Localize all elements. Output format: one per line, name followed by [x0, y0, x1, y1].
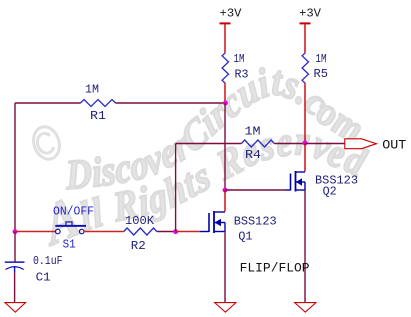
- resistor R2: [124, 228, 157, 235]
- svg-text:C1: C1: [36, 271, 51, 285]
- svg-text:+3V: +3V: [299, 7, 322, 21]
- svg-text:0.1uF: 0.1uF: [33, 254, 63, 268]
- svg-text:Q1: Q1: [238, 229, 252, 243]
- wire node B down to Q2 drain: [304, 144, 306, 172]
- svg-text:1M: 1M: [316, 52, 327, 66]
- svg-text:Q2: Q2: [323, 185, 337, 199]
- resistor R4: [241, 140, 274, 147]
- svg-text:+3V: +3V: [220, 7, 243, 21]
- svg-text:R5: R5: [314, 67, 329, 81]
- wire junction to Q1 drain: [224, 190, 226, 212]
- svg-text:S1: S1: [63, 238, 76, 252]
- svg-text:R2: R2: [131, 239, 146, 253]
- left rail vertical wire: [14, 103, 16, 232]
- wire across to R4 (crosses node-A rail, no connection): [176, 143, 242, 145]
- wire R2 to gate junction: [157, 231, 176, 233]
- wire left rail top corner from (15,103): [15, 102, 81, 104]
- ground (Q1 source): [215, 303, 236, 313]
- watermark copyright symbol: [30, 123, 64, 162]
- wire junction to Q1 gate: [176, 231, 201, 233]
- wire R4 to node B: [274, 143, 305, 145]
- wire R3 bottom to node A: [224, 83, 226, 103]
- resistor R3: [222, 53, 228, 84]
- svg-text:BSS123: BSS123: [234, 214, 277, 228]
- resistor R1: [81, 100, 116, 107]
- svg-text:OUT: OUT: [382, 138, 406, 153]
- ground (Q2 source): [295, 303, 316, 313]
- wire R5 bottom to node B: [304, 83, 306, 143]
- node B junction dot: [303, 141, 308, 146]
- junction dot (Q1 gate node): [173, 229, 178, 234]
- wire node A down to Q2-gate junction: [224, 103, 226, 190]
- wire rail to C1: [14, 232, 16, 263]
- wire Q1 source down to ground: [224, 232, 226, 303]
- wire C1 to ground: [14, 273, 16, 303]
- transistor Q2 (BSS123 N-MOSFET): [285, 171, 305, 192]
- switch S1 (pushbutton): [55, 222, 86, 234]
- svg-text:1M: 1M: [234, 52, 245, 66]
- node A junction dot: [223, 101, 228, 106]
- ground (C1): [5, 303, 26, 313]
- svg-text:1M: 1M: [85, 83, 99, 97]
- svg-text:R3: R3: [235, 67, 249, 81]
- wire Q2 source down to ground: [304, 190, 306, 302]
- OUT port symbol: [345, 139, 377, 149]
- wire node B to OUT port: [305, 143, 345, 145]
- wire +3V bar to R5 top: [304, 24, 306, 53]
- svg-text:FLIP/FLOP: FLIP/FLOP: [240, 261, 310, 276]
- junction dot (left rail / switch): [13, 229, 18, 234]
- resistor R5: [302, 53, 308, 84]
- wire switch to R2: [84, 231, 124, 233]
- transistor Q1 (BSS123 N-MOSFET): [200, 211, 225, 233]
- power symbol +3V (right rail): [299, 7, 322, 24]
- wire junction to switch S1: [15, 231, 56, 233]
- svg-text:100K: 100K: [125, 214, 155, 228]
- watermark line 2: All Rights Reserved: [34, 118, 372, 259]
- wire Q1-gate node up: [175, 144, 177, 232]
- power symbol +3V (left rail): [220, 7, 243, 24]
- svg-text:R1: R1: [90, 109, 106, 123]
- svg-text:ON/OFF: ON/OFF: [53, 205, 94, 219]
- svg-text:R4: R4: [245, 148, 261, 162]
- capacitor C1: [5, 262, 25, 272]
- junction dot (Q2 gate tap): [223, 188, 228, 193]
- watermark line 1: DiscoverCircuits.com: [64, 58, 370, 199]
- svg-text:1M: 1M: [245, 125, 261, 139]
- wire R1 right to node A: [116, 102, 226, 104]
- wire Q2 gate junction to gate lead: [225, 189, 285, 191]
- wire +3V bar to R3 top: [224, 24, 226, 53]
